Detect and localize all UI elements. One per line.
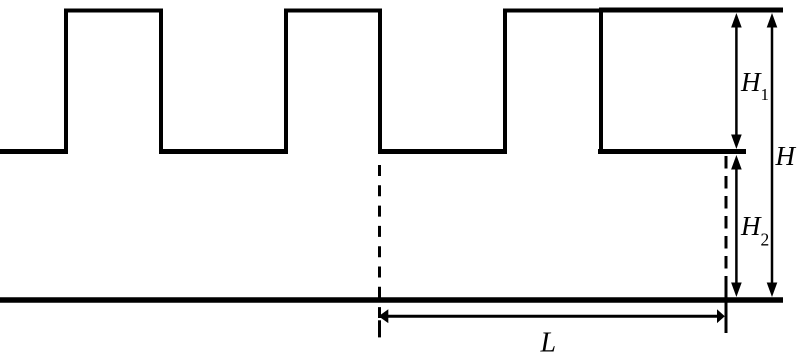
svg-text:H: H: [775, 141, 797, 171]
upper wall baseline segment 4: [598, 149, 746, 154]
dimension H2 arrow: [731, 155, 742, 297]
dimension H arrow: [767, 13, 778, 297]
extension line left dashed: [378, 165, 381, 318]
upper wall baseline segment 2: [159, 149, 288, 154]
upper wall baseline segment 1: [0, 149, 68, 154]
rib 1: [66, 11, 161, 154]
rib 2: [286, 11, 380, 154]
dimension H1 arrow: [731, 13, 742, 149]
lower wall bottom plate: [0, 297, 783, 303]
extension line left solid tail: [378, 320, 381, 337]
svg-text:1: 1: [761, 85, 770, 104]
rib 3: [505, 11, 601, 154]
top reference line extension: [599, 8, 783, 13]
extension line right dashed: [725, 156, 728, 285]
dimension L arrow: [379, 309, 725, 323]
svg-text:2: 2: [761, 230, 770, 250]
svg-text:L: L: [540, 327, 557, 356]
svg-text:H: H: [740, 67, 762, 97]
upper wall baseline segment 3: [378, 149, 507, 154]
svg-text:H: H: [740, 211, 762, 241]
extension line right solid tail: [725, 285, 728, 333]
